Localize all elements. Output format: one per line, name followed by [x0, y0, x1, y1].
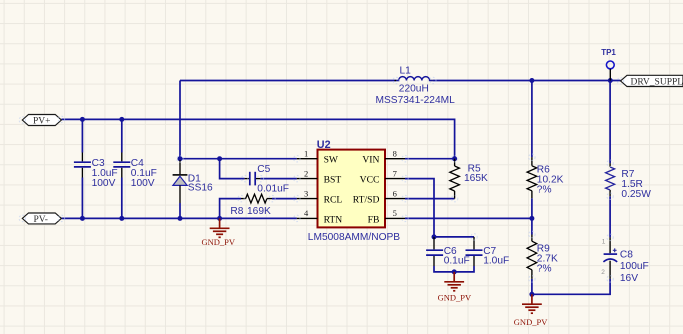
- svg-text:7: 7: [393, 168, 397, 178]
- svg-text:LM5008AMM/NOPB: LM5008AMM/NOPB: [308, 232, 400, 243]
- wire C3 column bottom: [81, 178, 83, 219]
- junction PV- / ground tap: [217, 216, 222, 221]
- junction PV- / D1: [178, 216, 183, 221]
- resistor R6: [527, 157, 564, 198]
- svg-text:1: 1: [304, 149, 308, 159]
- U2 pin 6 RT/SD: [353, 188, 405, 205]
- wire bottom return C8 to ground: [532, 279, 610, 294]
- wire R9 top: [531, 218, 533, 234]
- op-amp U2 LM5008AMM/NOPB body: [308, 139, 400, 243]
- U2 pin 4 RTN: [297, 208, 342, 225]
- svg-text:100V: 100V: [92, 178, 116, 189]
- wire top rail right (L1 to DRV_SUPPLY): [433, 80, 621, 82]
- junction PV+ / C3: [80, 117, 85, 122]
- U2 pin 1 SW: [297, 149, 339, 166]
- svg-text:8: 8: [393, 149, 397, 159]
- svg-text:SS16: SS16: [188, 183, 213, 194]
- svg-text:DRV_SUPPLY: DRV_SUPPLY: [631, 77, 683, 87]
- svg-text:16V: 16V: [620, 273, 638, 284]
- wire C3 column top: [81, 119, 83, 152]
- svg-text:C8: C8: [620, 249, 633, 260]
- svg-text:100V: 100V: [131, 178, 155, 189]
- svg-text:U2: U2: [317, 139, 331, 151]
- wire C5 branch (SW to BST cap): [220, 159, 245, 179]
- resistor R5: [450, 159, 488, 199]
- svg-text:RT/SD: RT/SD: [353, 195, 380, 206]
- svg-text:100uF: 100uF: [620, 261, 649, 272]
- capacitor C3: [74, 153, 118, 189]
- wire R7 bottom to C8: [609, 196, 611, 237]
- capacitor C6: [426, 237, 470, 267]
- svg-text:GND_PV: GND_PV: [514, 317, 548, 327]
- resistor R8: [230, 194, 272, 217]
- svg-text:RCL: RCL: [324, 195, 343, 206]
- wire PV- rail: [61, 217, 296, 219]
- junction top rail / R6: [529, 78, 534, 83]
- svg-text:GND_PV: GND_PV: [438, 292, 472, 302]
- node markers (compile indicators): [19, 77, 624, 282]
- wire R8 left to ground rail: [220, 199, 241, 219]
- svg-text:PV+: PV+: [33, 116, 51, 126]
- U2 pin 8 VIN: [362, 149, 405, 166]
- wire R8 right to pin 3: [272, 198, 297, 200]
- wire C6-C7 top link: [434, 236, 474, 238]
- svg-text:GND_PV: GND_PV: [202, 237, 236, 247]
- wire R6 bottom: [531, 198, 533, 218]
- junction R9 / C8 return / ground: [529, 292, 534, 297]
- svg-text:6: 6: [393, 188, 397, 198]
- svg-text:1: 1: [602, 239, 606, 246]
- capacitor C8 (polarized): [601, 237, 649, 284]
- wire R9 bottom: [531, 279, 533, 294]
- wire FB row (pin 5 to divider): [405, 217, 532, 219]
- ground GND_PV (left): [202, 218, 236, 247]
- junction VIN / R5: [452, 156, 457, 161]
- wire R6 top column: [531, 81, 533, 158]
- junction SW/C5 branch: [217, 156, 222, 161]
- port PV-: [22, 213, 61, 225]
- inductor L1: [376, 66, 456, 106]
- svg-text:2: 2: [304, 168, 308, 178]
- port DRV_SUPPLY: [621, 75, 683, 87]
- junction PV+ / C4: [119, 117, 124, 122]
- svg-text:TP1: TP1: [601, 48, 616, 57]
- svg-text:PV-: PV-: [34, 215, 48, 225]
- svg-text:165K: 165K: [464, 173, 488, 184]
- capacitor C5: [245, 164, 289, 194]
- wire SW row to pin 1: [180, 158, 297, 160]
- wire VIN row (pin 8): [405, 158, 455, 160]
- capacitor C7: [466, 237, 510, 267]
- diode D1 SS16: [173, 160, 213, 203]
- junction PV- / C3: [80, 216, 85, 221]
- svg-text:VCC: VCC: [360, 175, 380, 186]
- ground GND_PV (middle): [438, 272, 472, 303]
- svg-text:L1: L1: [400, 66, 412, 77]
- port PV+: [22, 115, 61, 127]
- wire C6-C7 bottom link: [434, 266, 474, 272]
- junction top rail / TP1 / R7: [608, 78, 613, 83]
- svg-text:5: 5: [393, 208, 397, 218]
- wire C4 column top: [121, 119, 123, 152]
- U2 pin 2 BST: [297, 168, 342, 185]
- svg-text:0.1uF: 0.1uF: [444, 256, 470, 267]
- svg-text:0.01uF: 0.01uF: [257, 184, 289, 195]
- svg-text:R8: R8: [230, 206, 243, 217]
- svg-text:VIN: VIN: [362, 155, 379, 166]
- wire C5 right lead to pin 2: [260, 178, 296, 180]
- U2 pin 5 FB: [368, 208, 405, 225]
- svg-text:2: 2: [601, 269, 605, 276]
- ground GND_PV (right): [514, 294, 548, 327]
- svg-text:BST: BST: [324, 175, 342, 186]
- svg-text:C5: C5: [257, 164, 270, 175]
- wire SW vertical: [179, 81, 181, 160]
- svg-text:169K: 169K: [247, 206, 271, 217]
- capacitor C4: [113, 153, 157, 189]
- svg-text:1.0uF: 1.0uF: [483, 256, 509, 267]
- svg-text:220uH: 220uH: [399, 84, 429, 95]
- wire RT/SD row (pin 6 to R5 bottom): [405, 198, 455, 200]
- svg-text:SW: SW: [324, 155, 339, 166]
- junction SW node at D1: [178, 156, 183, 161]
- svg-text:0.25W: 0.25W: [621, 189, 651, 200]
- svg-text:FB: FB: [368, 214, 380, 225]
- test point TP1: [601, 48, 616, 80]
- wire R7 top column: [609, 81, 611, 164]
- junction C6/C7 bottom to ground: [452, 269, 457, 274]
- svg-text:?%: ?%: [537, 185, 552, 196]
- junction FB / R6 / R9: [529, 216, 534, 221]
- wire D1 bottom to PV- rail: [179, 203, 181, 218]
- svg-text:?%: ?%: [537, 264, 552, 275]
- svg-text:3: 3: [304, 188, 308, 198]
- U2 pin 3 RCL: [297, 188, 343, 205]
- resistor R9: [527, 235, 558, 279]
- junction PV- / C4: [119, 216, 124, 221]
- resistor R7: [606, 163, 652, 200]
- wire PV+ rail: [61, 119, 454, 158]
- junction VCC / C6 top: [432, 234, 437, 239]
- svg-text:MSS7341-224ML: MSS7341-224ML: [376, 95, 456, 106]
- U2 pin 7 VCC: [360, 168, 405, 185]
- wire VCC row (pin 7) down to C6/C7: [405, 179, 434, 237]
- svg-text:RTN: RTN: [324, 214, 343, 225]
- wire C4 column bottom: [121, 178, 123, 219]
- wire top rail left (SW node to L1): [180, 80, 396, 82]
